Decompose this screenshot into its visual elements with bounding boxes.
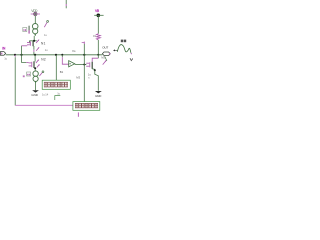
svg-text:1u: 1u xyxy=(4,56,7,60)
pink feedback wire to box2 xyxy=(15,104,73,106)
gate riser wire to N1 xyxy=(22,46,28,55)
arrow marker on N2 xyxy=(36,59,40,67)
tiny label left of M3 source xyxy=(88,72,91,76)
wire rail to M3 drain xyxy=(97,55,99,58)
wire rail down left branch xyxy=(14,55,16,106)
waveform squiggle xyxy=(117,45,131,55)
node VB xyxy=(94,14,103,18)
current source I1 xyxy=(32,24,38,36)
wire I1 to node A xyxy=(34,34,35,41)
wire M3 source to ground xyxy=(95,70,99,91)
svg-text:M3: M3 xyxy=(76,76,80,80)
annotation box2 xyxy=(73,102,100,111)
arrow marker on I2 xyxy=(39,71,43,76)
transistor N2 xyxy=(29,55,36,72)
junction dot rail x84 xyxy=(83,54,85,56)
arrow marker on I1 xyxy=(44,21,48,28)
callout line below OUT xyxy=(105,56,107,61)
node A horizontal wire xyxy=(29,41,36,43)
top edge clipped wire stub xyxy=(65,0,67,8)
resistor R xyxy=(96,34,100,40)
tiny label far left xyxy=(4,56,7,60)
power symbol VDD xyxy=(31,12,40,15)
svg-text:14: 14 xyxy=(45,92,48,96)
svg-text:N1: N1 xyxy=(41,42,46,46)
wire I2 to ground xyxy=(35,81,37,90)
svg-text:Vs: Vs xyxy=(72,49,76,53)
ground left xyxy=(31,90,39,97)
junction dot rail x62 xyxy=(61,54,63,56)
op-amp output wire xyxy=(75,63,87,65)
tiny mark x right of box1 xyxy=(88,76,90,79)
svg-text:N2: N2 xyxy=(41,57,46,61)
label N1 xyxy=(41,42,46,46)
long vertical wire x84 xyxy=(82,42,85,102)
label Vs xyxy=(72,49,76,53)
main rail wire xyxy=(6,54,103,56)
svg-text:x: x xyxy=(88,76,90,79)
junction blob N2 source xyxy=(34,67,36,69)
wire R to rail xyxy=(97,40,99,55)
svg-text:1u: 1u xyxy=(45,48,48,52)
vertical value label I1 xyxy=(28,26,29,34)
wire VB to R xyxy=(97,15,99,33)
label box I1 xyxy=(23,28,27,32)
svg-text:VB: VB xyxy=(95,9,100,13)
check mark lower right of waveform xyxy=(130,58,133,60)
junction dot rail x98 xyxy=(97,54,99,56)
junction dot rail x21.5 xyxy=(20,54,22,56)
junction dot opamp out x84 xyxy=(83,64,85,66)
op-amp A1 xyxy=(69,61,75,67)
wire VDD to I1 xyxy=(34,16,36,24)
tiny marks above M3 arrow xyxy=(101,56,105,60)
svg-text:1u: 1u xyxy=(44,33,47,37)
junction dot node A xyxy=(33,40,35,42)
annotation box2 text xyxy=(75,103,97,108)
power label VDD xyxy=(31,9,38,13)
junction dot rail x56 xyxy=(55,54,57,56)
svg-text:IN: IN xyxy=(2,47,6,51)
annotation box1 text xyxy=(44,82,67,87)
waveform annotation arrow xyxy=(113,49,117,51)
wire jog to N2 gate xyxy=(22,55,29,63)
svg-text:OUT: OUT xyxy=(102,45,108,49)
input port IN xyxy=(0,47,6,56)
output port OUT xyxy=(102,45,110,55)
net label VB xyxy=(95,9,100,13)
tiny label left mid xyxy=(45,48,48,52)
junction blob M3 source xyxy=(94,69,96,71)
label under op-amp xyxy=(60,70,64,74)
tiny value label below ground left xyxy=(42,93,45,97)
tiny labels below box1 xyxy=(45,92,60,97)
arrow marker on N1 xyxy=(36,39,39,51)
current source I2 xyxy=(33,71,38,83)
junction dot rail x15 xyxy=(14,54,16,56)
label N2 xyxy=(41,57,46,61)
svg-text:GND: GND xyxy=(31,93,39,97)
op-amp A1 input wire xyxy=(62,55,68,64)
callout wire to box1 xyxy=(55,55,57,80)
svg-text:GND: GND xyxy=(95,94,102,98)
small magenta label on left wire xyxy=(23,75,25,77)
label M3 above box1 xyxy=(76,76,80,80)
ground right xyxy=(95,91,102,98)
transistor N1 xyxy=(27,41,34,55)
green corner mark below box1 xyxy=(55,96,61,100)
junction dot rail x35 xyxy=(34,54,36,56)
tiny mark below box2 xyxy=(77,112,79,116)
annotation box1 xyxy=(42,80,70,89)
svg-text:B1: B1 xyxy=(60,70,64,74)
svg-text:1u: 1u xyxy=(57,92,60,96)
waveform label text xyxy=(121,40,126,43)
tiny label M1 value xyxy=(44,33,47,37)
transistor M3 xyxy=(84,58,98,70)
arrow marker on M3 xyxy=(103,60,107,65)
label R xyxy=(93,35,97,38)
label box I2 xyxy=(27,72,31,76)
